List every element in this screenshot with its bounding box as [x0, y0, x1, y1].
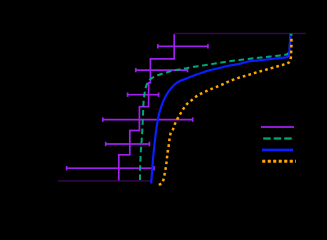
legend entry 4: orange dotted line [262, 160, 296, 163]
purple CDF bottom baseline (dim) [58, 180, 151, 182]
error bar 4 [103, 117, 193, 121]
legend entry 2: green dashed line [263, 137, 292, 139]
error bar 2 [136, 68, 188, 72]
error bar 1 [158, 44, 208, 48]
purple CDF top plateau (dim) [174, 33, 305, 35]
blue solid model curve [151, 36, 290, 184]
error bar 6 [67, 166, 154, 170]
legend entry 3: blue line [262, 149, 293, 152]
purple step curve (data CDF) [119, 34, 174, 180]
legend entry 1: purple line [261, 126, 294, 128]
green curve top tip dash [290, 34, 293, 36]
orange dotted model curve [159, 37, 292, 185]
error bar 3 [128, 93, 159, 97]
green dashed model curve [140, 35, 292, 180]
error bar 5 [106, 142, 150, 146]
